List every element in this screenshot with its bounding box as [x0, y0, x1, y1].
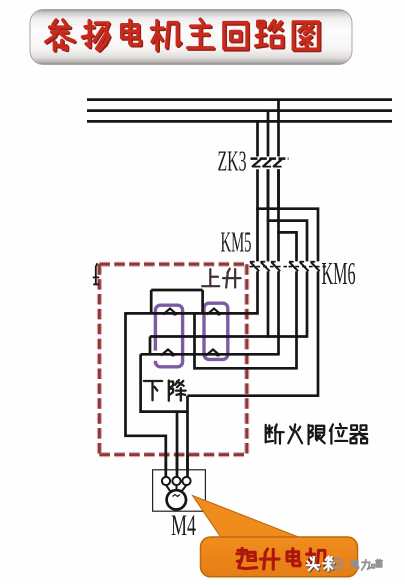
svg-text:KM6: KM6 [322, 255, 356, 291]
svg-text:ZK3: ZK3 [218, 147, 247, 178]
svg-text:M4: M4 [171, 509, 196, 542]
svg-text:KM5: KM5 [221, 227, 252, 259]
